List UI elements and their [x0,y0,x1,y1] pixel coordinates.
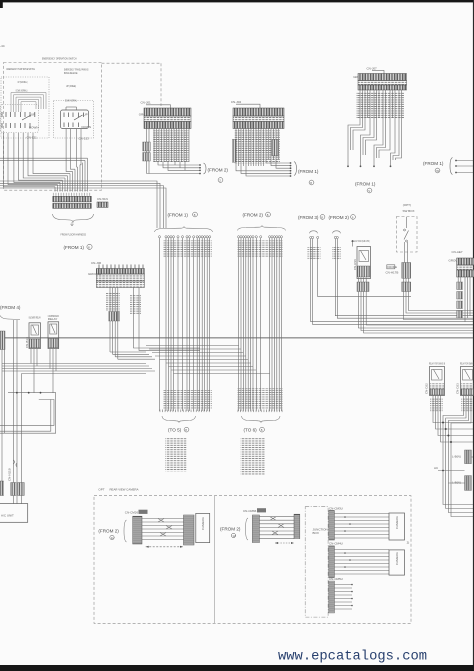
svg-text:CN-J07: CN-J07 [367,66,378,70]
svg-text:(FROM 3): (FROM 3) [298,215,319,220]
svg-text:(FROM 1): (FROM 1) [168,213,189,218]
svg-text:CN-D23: CN-D23 [456,383,460,394]
svg-text:(TO 5): (TO 5) [168,428,182,433]
box CAMERA left [196,513,210,542]
svg-text:(FROM 2): (FROM 2) [98,529,119,534]
svg-text:CAMERA: CAMERA [395,516,399,529]
svg-text:CN-CM3U: CN-CM3U [329,506,343,510]
wires under air htr relay [358,278,473,334]
svg-text:W: W [436,169,439,173]
wire fan under CN-J04 [232,129,291,177]
OPT REAR VIEW CAMERA title [98,487,138,491]
svg-text:RELAY FOR (AIR HTR): RELAY FOR (AIR HTR) [352,239,370,243]
right stub wires group 1 [308,231,474,325]
svg-text:UP (NORMAL): UP (NORMAL) [18,80,28,84]
brace above bundle 1 [155,227,213,232]
emergency travel parking brake release dotted box [54,68,94,138]
connector stack camera M1 [252,515,259,543]
relay RELAY FOR DWELL (right of pair) [456,361,474,395]
svg-text:BLOWER RELAY: BLOWER RELAY [29,316,41,320]
legend text under TO 5 [165,438,186,472]
brace below bundle 1 [162,416,196,422]
svg-text:(FROM 1): (FROM 1) [64,245,85,250]
bundle 1 wires [158,236,212,411]
svg-text:CN-AE7: CN-AE7 [452,250,463,254]
svg-text:REAR VIEW CAMERA: REAR VIEW CAMERA [110,487,139,491]
node (FROM 1) right of CN-J04 [294,162,319,186]
svg-text:FROM FLOOR HARNESS: FROM FLOOR HARNESS [61,233,87,237]
node (FROM 1) above bundle 1 [168,212,198,217]
wire dot mid right [352,240,354,242]
node (TO 5) [168,427,189,432]
crossing wires between bundles [146,346,270,374]
svg-text:(TO 6): (TO 6) [244,428,258,433]
svg-text:CN-J01: CN-J01 [141,101,152,105]
svg-text:BOX: BOX [313,531,319,535]
relay COMPRESSOR RELAY [48,314,59,348]
switch SW2 body CN-513 [61,107,92,141]
svg-text:CN-B14: CN-B14 [25,337,29,348]
brace above bundle 2 [238,226,286,231]
svg-text:V: V [368,189,370,193]
inline connector stack under CN-AE7 [457,277,470,322]
svg-text:CN-J04: CN-J04 [231,100,242,104]
switch SW1 labels [16,80,28,92]
wires below left relays [0,320,146,483]
svg-text:CAMERA: CAMERA [395,552,399,565]
wire loop fan from SW1 top pins [11,93,46,113]
emergency operation switch dashed box [4,56,162,190]
switch SW1 body CN-521 [1,105,39,140]
svg-text:(FROM 4): (FROM 4) [0,305,21,310]
wires camera left sub [142,519,184,540]
svg-text:UP: UP [31,113,35,117]
inline connector under air htr relay [357,282,369,292]
inline connector pair CN-N11B [8,468,25,495]
svg-text:UP (FREE): UP (FREE) [66,84,76,88]
camera section divider [214,496,216,624]
svg-text:CN-CM4U: CN-CM4U [329,542,343,546]
relay RELAY FOR DWELL (left of pair) [425,361,446,395]
node (FROM 1) label left [64,244,93,250]
node (FROM 2) camera mid [220,518,248,540]
svg-text:(FROM 1): (FROM 1) [423,161,444,166]
svg-text:www.epcatalogs.com: www.epcatalogs.com [278,649,427,665]
svg-text:CAMERA: CAMERA [201,517,205,530]
OPT switch box [397,203,418,262]
node (FROM 2) above bundle 2 [243,212,271,217]
inline connectors on CN-J06 wires [109,312,112,322]
svg-text:CN-513: CN-513 [78,137,89,141]
frame right edge [473,0,474,671]
svg-text:(FROM 2): (FROM 2) [208,168,229,173]
svg-text:DOWN: DOWN [82,125,92,129]
svg-text:SW BOX: SW BOX [403,209,415,213]
emergency pump drive switch dotted box [1,67,49,138]
svg-text:(FROM 1): (FROM 1) [298,169,319,174]
svg-text:DOWN: DOWN [29,126,39,130]
svg-text:OPT: OPT [98,488,104,492]
svg-text:CN-CM26: CN-CM26 [125,510,139,514]
connector pair right edge 1 [452,450,473,464]
svg-text:(FROM 2): (FROM 2) [220,527,241,532]
bundle 2 arrowheads [238,410,283,413]
box CAMERA right 2 [389,550,405,575]
connector stack camera L1 [133,516,142,544]
connector pair right edge 2 [448,476,471,491]
relay BLOWER RELAY [25,316,41,349]
svg-text:(FROM 1): (FROM 1) [355,182,376,187]
node (FROM 1) right edge trio [423,158,473,175]
box A/C UNIT [0,496,28,523]
frame bottom bar [0,665,474,671]
connector CN-H17B [402,263,411,279]
relay RELAY FOR (AIR HTR) [352,239,371,279]
connector CN-J06 [88,261,144,288]
wire fan under CN-J07 [347,90,404,167]
wires below CN-J06 [110,288,200,360]
connector stack junction R2 [329,542,343,578]
wires junction R2 to camera 2 [334,550,389,575]
connector CN-J07 [353,66,406,90]
legend text under TO 6 [241,438,265,475]
junction box [305,507,328,617]
svg-text:RELAY: RELAY [48,317,58,321]
svg-text:RELAY FOR SWING B: RELAY FOR SWING B [429,361,445,365]
node (FROM 3) (FROM 2) above right stubs [298,215,355,220]
brace under CN-51N [53,214,94,222]
frame top bar [0,0,474,2]
svg-text:CN-R16: CN-R16 [353,259,357,270]
svg-text:11: 11 [111,536,114,540]
connector stack junction R1 [329,506,343,540]
node (TO 6) [244,427,265,432]
left horizontal wires to crossing [2,364,155,372]
connector stack at junction box left [294,514,300,539]
svg-text:RELAY FOR SWING: RELAY FOR SWING [460,361,474,365]
connector CN-J01 [139,101,191,129]
svg-text:CN-N11B: CN-N11B [8,468,12,481]
svg-text:L-B(N): L-B(N) [452,455,461,459]
svg-text:CN-CM5U: CN-CM5U [329,577,343,581]
right stub wires group 2 [332,231,473,318]
box CAMERA right 1 [389,513,405,540]
label CN-CM26 [125,510,148,515]
svg-text:EMERGENCY PUMP DRIVE SWITCH: EMERGENCY PUMP DRIVE SWITCH [7,67,36,71]
svg-text:CN-CM66: CN-CM66 [243,509,257,513]
wire fan from switches to CN-51N [0,129,166,228]
svg-text:DOWN (NORMAL): DOWN (NORMAL) [16,88,27,92]
svg-text:(FROM 2): (FROM 2) [329,215,350,220]
wires junction R1 to camera 1 [334,514,389,539]
camera section dashed box [94,496,411,624]
svg-text:A/C UNIT: A/C UNIT [1,514,14,518]
bundle 2 wires [237,236,283,411]
inline connector under CN-H17B [402,282,411,292]
connector left edge CN-S01 [0,331,5,350]
wire labels under relays [430,398,443,412]
dashed arrow under camera left [146,546,183,548]
section divider line [0,337,473,339]
diode DIODE CN-H17B label [386,265,399,275]
inline connector left edge [0,481,4,496]
stub wires junction R3 [334,585,352,610]
svg-text:12: 12 [232,534,236,538]
svg-text:DIODE: DIODE [388,265,398,269]
bundle 1 arrowheads [158,410,211,413]
wire labels below CN-J06 [106,292,120,311]
node (FROM 4) left [0,305,21,320]
label CN-CM66 [243,508,266,513]
wires camera mid sub [259,517,294,539]
switch SW2 labels [65,84,77,102]
node (FROM 2) camera left [98,520,126,542]
connector CN-51N [53,193,108,209]
node (FROM 1) under CN-J07 [355,182,376,194]
svg-text:4-44: 4-44 [0,44,5,48]
wire fan under CN-J01 [143,129,201,175]
brace below bundle 2 [242,416,281,422]
svg-text:CN-51N: CN-51N [97,197,108,201]
wires under bottom-right relays [433,396,473,517]
connector CN-J04 [231,100,284,129]
connector stack camera L2 [184,515,195,545]
svg-text:EMERGENCY OPERATION SWITCH: EMERGENCY OPERATION SWITCH [42,56,77,60]
svg-text:(FROM 2): (FROM 2) [243,213,264,218]
svg-text:UP: UP [84,113,88,117]
svg-text:L-B(N): L-B(N) [452,481,461,485]
svg-text:BRAKE RELEASE: BRAKE RELEASE [64,71,78,75]
svg-text:CN-D22: CN-D22 [425,383,429,394]
svg-text:CN-J06: CN-J06 [91,261,102,265]
node (FROM 2) right of CN-J01 [204,163,229,183]
svg-text:(OPT): (OPT) [403,203,411,207]
node AC junction [434,466,465,471]
svg-text:2): 2) [407,540,410,544]
crossing squiggle marks on wires [13,460,17,467]
dotted arrow under camera mid [275,542,294,544]
svg-text:CN-H17B: CN-H17B [386,271,399,275]
connector CN-AE7 [449,250,474,277]
connector stack junction R3 [329,577,343,613]
svg-text:DOWN NORMAL: DOWN NORMAL [65,98,77,102]
